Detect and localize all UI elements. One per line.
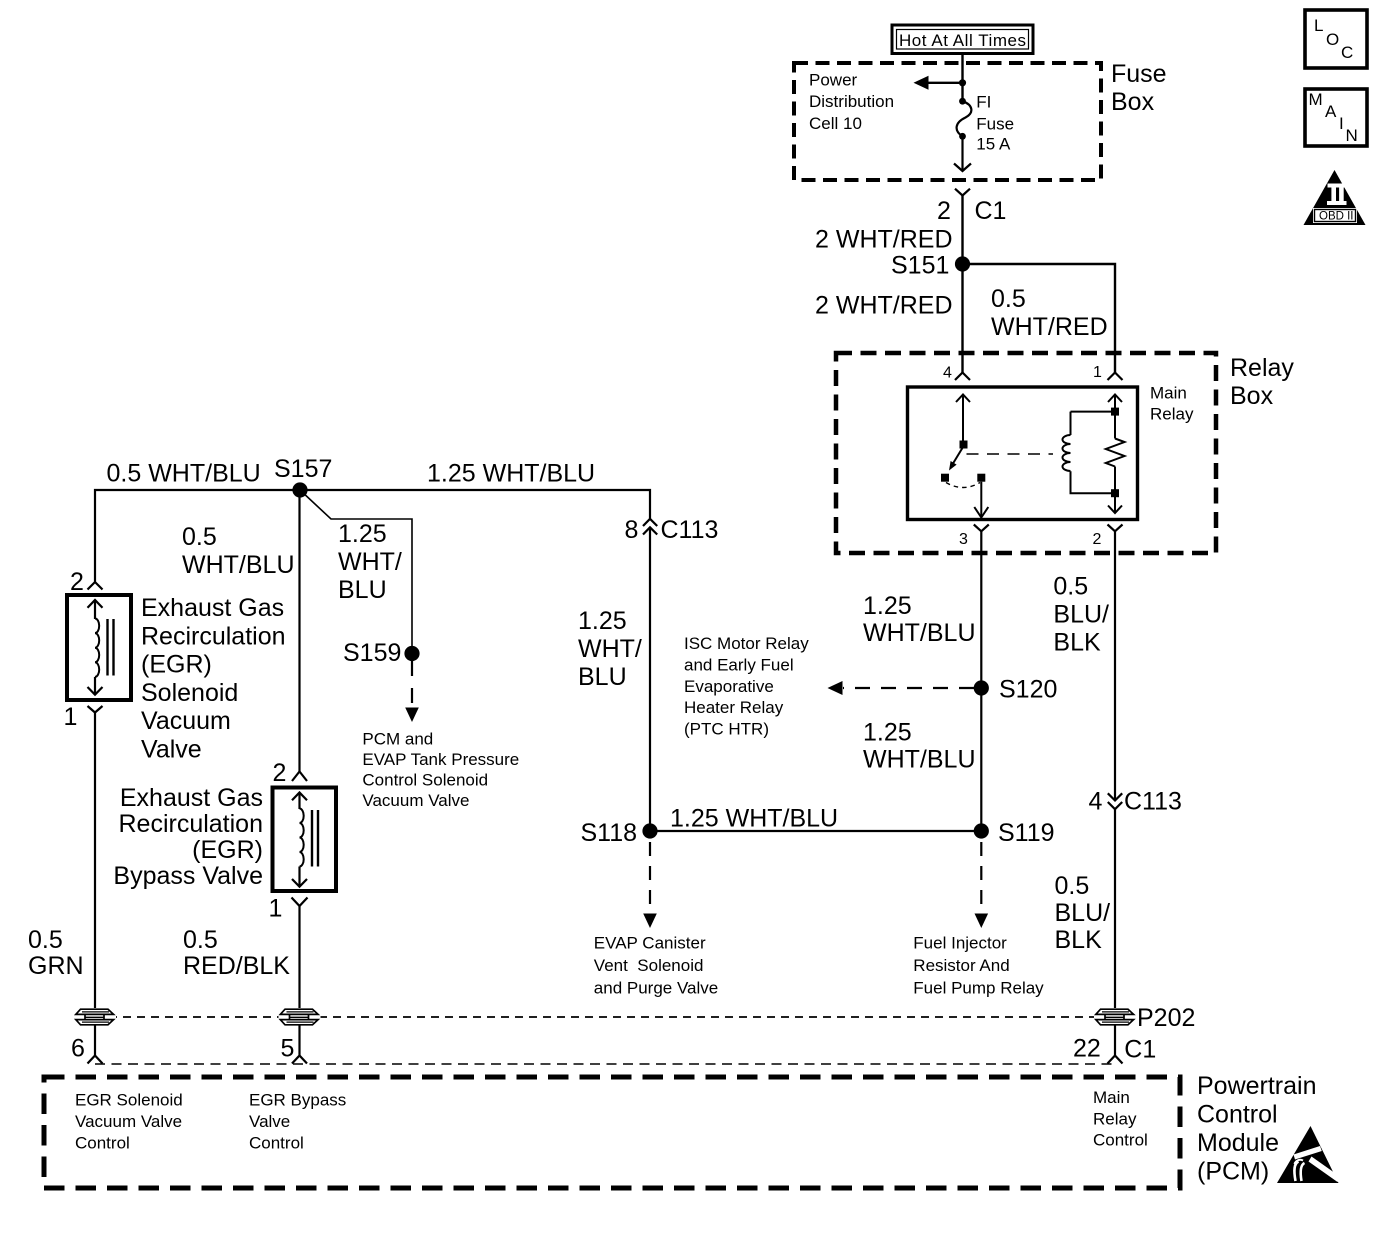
svg-text:(EGR): (EGR) [141,651,212,679]
svg-text:N: N [1346,126,1358,145]
label 0.5 BLU/ BLK (lower) [1055,872,1111,954]
EGR solenoid vacuum valve [67,595,131,700]
svg-text:Control: Control [75,1133,130,1152]
svg-text:P202: P202 [1137,1004,1195,1032]
svg-text:FI: FI [976,92,991,111]
svg-text:4: 4 [1089,788,1103,816]
svg-text:GRN: GRN [28,952,84,980]
svg-text:Control: Control [249,1133,304,1152]
relay coil [1063,412,1116,494]
splice S120 [974,676,1058,704]
svg-text:I: I [1339,114,1344,133]
svg-text:1: 1 [64,703,78,731]
svg-text:C1: C1 [1124,1036,1156,1064]
main relay outline [908,387,1138,520]
Hot At All Times tag [892,25,1033,54]
svg-text:0.5: 0.5 [28,926,63,954]
OBD II symbol [1304,170,1366,225]
svg-text:Main: Main [1093,1088,1130,1107]
svg-text:Exhaust Gas: Exhaust Gas [120,784,263,812]
svg-text:0.5: 0.5 [1053,572,1088,600]
svg-text:Vent Solenoid: Vent Solenoid [594,956,704,975]
svg-text:WHT/BLU: WHT/BLU [182,551,295,579]
label Power Distribution Cell 10 [809,70,894,133]
svg-text:Heater Relay: Heater Relay [684,698,784,717]
svg-text:1: 1 [1093,364,1102,381]
svg-text:4: 4 [943,365,952,382]
svg-text:Module: Module [1197,1129,1279,1157]
wire: S157 to S159 [300,490,412,646]
svg-text:2: 2 [70,568,84,596]
wire: 0.5 WHT/BLU (S157 left to EGR solenoid valve) [95,490,300,582]
splice S159 [343,639,420,667]
connector pin 2 of C1 (fuse box output) [937,189,1006,225]
node: fuse box tap junction [959,79,966,86]
svg-text:5: 5 [281,1034,295,1062]
svg-text:EVAP Tank Pressure: EVAP Tank Pressure [362,750,519,769]
svg-text:Box: Box [1230,382,1274,410]
wire: battery feed into fuse box [961,54,963,102]
connector pin 2 (main relay) [1093,525,1123,549]
svg-text:0.5: 0.5 [1055,872,1090,900]
svg-text:Recirculation: Recirculation [118,810,263,838]
PCM connector face dashed line [95,1063,1112,1065]
svg-text:WHT/BLU: WHT/BLU [863,619,976,647]
svg-text:1: 1 [269,895,283,923]
connector 8 C113 [625,516,719,544]
svg-text:Control Solenoid: Control Solenoid [362,771,488,790]
svg-text:1.25: 1.25 [338,520,387,548]
wire stub + connector pin 22 C1 (PCM) [1073,1025,1156,1064]
wire: 0.5 RED/BLK (bypass valve pin 1 down to PCM) [298,906,300,1009]
svg-text:Solenoid: Solenoid [141,679,238,707]
label 1.25 WHT/ BLU (vertical run) [578,607,642,691]
splice S119 [974,819,1055,847]
relay box (dashed) [836,353,1216,553]
svg-text:S157: S157 [274,455,332,483]
relay switch arm (pin 4 side) [941,395,988,518]
svg-text:15 A: 15 A [976,134,1011,153]
splice S157 [274,455,332,498]
svg-text:Valve: Valve [141,736,202,764]
svg-text:BLU/: BLU/ [1053,601,1109,629]
wire: pin 2 down to C113 [1114,531,1116,800]
svg-text:Powertrain: Powertrain [1197,1072,1317,1100]
label Exhaust Gas Recirculation (EGR) Bypass Valve [113,784,263,890]
label 0.5 GRN [28,926,84,980]
relay actuation dashed link [967,453,1054,455]
svg-text:C113: C113 [661,516,719,544]
svg-text:Relay: Relay [1150,405,1194,424]
wire: 1.25 WHT/BLU (S118 to S119) [650,830,981,832]
Powertrain Control Module box (dashed) [44,1077,1180,1188]
svg-text:L: L [1314,16,1323,35]
svg-text:Control: Control [1093,1131,1148,1150]
svg-text:Hot At All Times: Hot At All Times [899,31,1026,50]
svg-text:C1: C1 [975,197,1007,225]
svg-text:Distribution: Distribution [809,92,894,111]
arrow: fuse output [954,136,971,171]
svg-text:S119: S119 [998,819,1055,847]
svg-text:EGR Bypass: EGR Bypass [249,1091,346,1110]
svg-text:(PTC HTR): (PTC HTR) [684,719,769,738]
svg-text:Fuse: Fuse [1111,60,1167,88]
wire: 0.5 GRN (valve pin 1 down to PCM) [94,713,96,1010]
connector pin 3 (main relay) [959,525,989,549]
svg-text:Relay: Relay [1093,1109,1137,1128]
connector pin 1 (EGR solenoid vacuum valve) [64,703,103,731]
svg-text:EGR Solenoid: EGR Solenoid [75,1091,183,1110]
svg-text:1.25: 1.25 [863,592,912,620]
svg-text:S118: S118 [580,819,637,847]
svg-text:WHT/RED: WHT/RED [991,313,1108,341]
grommet P202 (left wire) [74,1008,116,1026]
svg-text:Fuel Pump Relay: Fuel Pump Relay [913,978,1044,997]
svg-text:Control: Control [1197,1101,1278,1129]
dashed arrow: S159 to PCM and EVAP valve [405,661,419,722]
svg-text:ISC Motor Relay: ISC Motor Relay [684,634,809,653]
svg-text:1.25 WHT/BLU: 1.25 WHT/BLU [670,805,838,833]
svg-text:0.5: 0.5 [183,926,218,954]
splice S151 [891,252,970,280]
MAIN legend box [1305,89,1367,146]
label 1.25 WHT/BLU (above S120) [863,592,976,647]
label EGR Bypass Valve Control [249,1091,346,1153]
label 0.5 WHT/BLU (vertical run) [182,523,295,579]
svg-text:Evaporative: Evaporative [684,677,774,696]
svg-text:Relay: Relay [1230,354,1294,382]
svg-text:and Early Fuel: and Early Fuel [684,656,794,675]
svg-text:PCM and: PCM and [362,729,433,748]
label 1.25 WHT/BLU (S159 branch) [338,520,402,604]
svg-text:Cell 10: Cell 10 [809,114,862,133]
wire/arrow to Power Distribution Cell 10 [914,76,963,90]
label 0.5 WHT/RED [991,285,1108,341]
fuse FI 15 A [957,98,972,140]
label Fuel Injector Resistor And Fuel Pump Relay [913,933,1044,997]
label ISC Motor Relay and Early Fuel Evaporative Heater Relay (PTC HTR) [684,634,809,738]
label Main Relay Control [1093,1088,1148,1150]
dashed arrow: S120 to ISC motor relay [828,681,975,695]
svg-text:M: M [1309,90,1323,109]
svg-text:S159: S159 [343,639,401,667]
wire: S157 down to EGR bypass valve [298,490,300,772]
svg-text:2 WHT/RED: 2 WHT/RED [815,292,953,320]
svg-text:EVAP Canister: EVAP Canister [594,933,706,952]
svg-text:Bypass Valve: Bypass Valve [113,862,263,890]
svg-text:BLK: BLK [1055,926,1103,954]
svg-text:BLU: BLU [338,576,387,604]
svg-text:WHT/: WHT/ [578,635,642,663]
svg-text:Main: Main [1150,384,1187,403]
svg-text:(EGR): (EGR) [192,836,263,864]
wire: 1.25 WHT/BLU (C113 down to S118) [649,527,651,831]
svg-text:C: C [1341,43,1353,62]
ESD warning symbol [1277,1126,1341,1183]
svg-text:Recirculation: Recirculation [141,622,286,650]
dashed arrow: S118 to EVAP canister vent solenoid [643,842,657,928]
label FI Fuse 15 A [976,92,1014,153]
svg-text:BLU: BLU [578,663,627,691]
svg-text:0.5: 0.5 [182,523,217,551]
svg-text:WHT/BLU: WHT/BLU [863,746,976,774]
svg-text:2 WHT/RED: 2 WHT/RED [815,226,953,254]
label 0.5 BLU/ BLK (upper) [1053,572,1109,656]
connector pin 2 (EGR bypass valve) [273,759,308,787]
svg-text:C113: C113 [1124,788,1182,816]
label Main Relay [1150,384,1194,424]
splice S118 [580,819,657,847]
label Powertrain Control Module (PCM) [1197,1072,1317,1186]
svg-text:Power: Power [809,70,858,89]
EGR bypass valve [273,788,337,892]
svg-text:Valve: Valve [249,1112,290,1131]
svg-text:22: 22 [1073,1034,1101,1062]
wire: 1.25 WHT/BLU (S157 right to C113) [300,490,650,519]
svg-text:1.25: 1.25 [863,719,912,747]
svg-text:2: 2 [937,197,951,225]
svg-text:Vacuum Valve: Vacuum Valve [362,791,469,810]
fuse box (dashed) [794,63,1101,180]
svg-text:Fuse: Fuse [976,115,1014,134]
svg-text:A: A [1325,102,1337,121]
svg-text:and Purge Valve: and Purge Valve [594,978,718,997]
svg-text:6: 6 [71,1034,85,1062]
svg-text:BLK: BLK [1053,629,1101,657]
label EGR Solenoid Vacuum Valve Control [75,1091,183,1153]
svg-text:2: 2 [273,759,287,787]
relay resistor [1106,395,1125,514]
svg-text:S151: S151 [891,252,949,280]
svg-text:0.5 WHT/BLU: 0.5 WHT/BLU [107,460,261,488]
label EVAP Canister Vent Solenoid and Purge Valve [594,933,718,997]
wire stub + connector pin 6 (PCM) [71,1025,103,1064]
LOC legend box [1305,10,1367,68]
svg-text:O: O [1326,30,1339,49]
dashed arrow: S119 to fuel injector resistor [975,842,989,928]
connector pin 2 (EGR solenoid vacuum valve) [70,568,103,596]
svg-text:WHT/: WHT/ [338,548,402,576]
svg-text:1.25: 1.25 [578,607,627,635]
harness pass-through dashed line P202 [95,1016,1112,1018]
connector pin 1 (main relay) [1093,364,1123,381]
label 0.5 RED/BLK [183,926,290,980]
wire: 2 WHT/RED trunk (C1 to S151) [961,196,963,265]
svg-text:3: 3 [959,531,968,548]
connector 4 C113 [1089,788,1182,816]
grommet P202 (second wire) [279,1008,321,1026]
wire stub + connector pin 5 (PCM) [281,1025,308,1064]
wire: 0.5 WHT/RED branch (S151 to relay pin 1) [963,264,1116,373]
svg-text:Vacuum: Vacuum [141,707,231,735]
svg-text:Fuel Injector: Fuel Injector [913,933,1007,952]
svg-text:Vacuum Valve: Vacuum Valve [75,1112,182,1131]
svg-text:(PCM): (PCM) [1197,1158,1269,1186]
svg-text:1.25 WHT/BLU: 1.25 WHT/BLU [427,460,595,488]
svg-text:8: 8 [625,516,639,544]
svg-text:Box: Box [1111,88,1155,116]
label PCM and EVAP Tank Pressure Control Solenoid Vacuum Valve [362,729,519,810]
svg-text:Resistor And: Resistor And [913,956,1009,975]
wire: pin 3 down to S119 [980,531,982,831]
connector pin 1 (EGR bypass valve) [269,895,308,923]
connector pin 4 (main relay) [943,365,970,382]
svg-text:RED/BLK: RED/BLK [183,952,290,980]
svg-text:0.5: 0.5 [991,285,1026,313]
wire: 2 WHT/RED (S151 to relay pin 4) [961,264,963,373]
label 1.25 WHT/BLU (below S120) [863,719,976,774]
svg-text:Exhaust Gas: Exhaust Gas [141,594,284,622]
svg-text:2: 2 [1093,531,1102,548]
svg-text:S120: S120 [999,676,1057,704]
wire: 0.5 BLU/BLK (C113 down to P202) [1114,809,1116,1009]
grommet P202 (right wire) [1094,1008,1136,1026]
svg-text:BLU/: BLU/ [1055,899,1111,927]
label Exhaust Gas Recirculation (EGR) Solenoid Vacuum Valve [141,594,286,764]
svg-text:OBD II: OBD II [1319,211,1354,223]
